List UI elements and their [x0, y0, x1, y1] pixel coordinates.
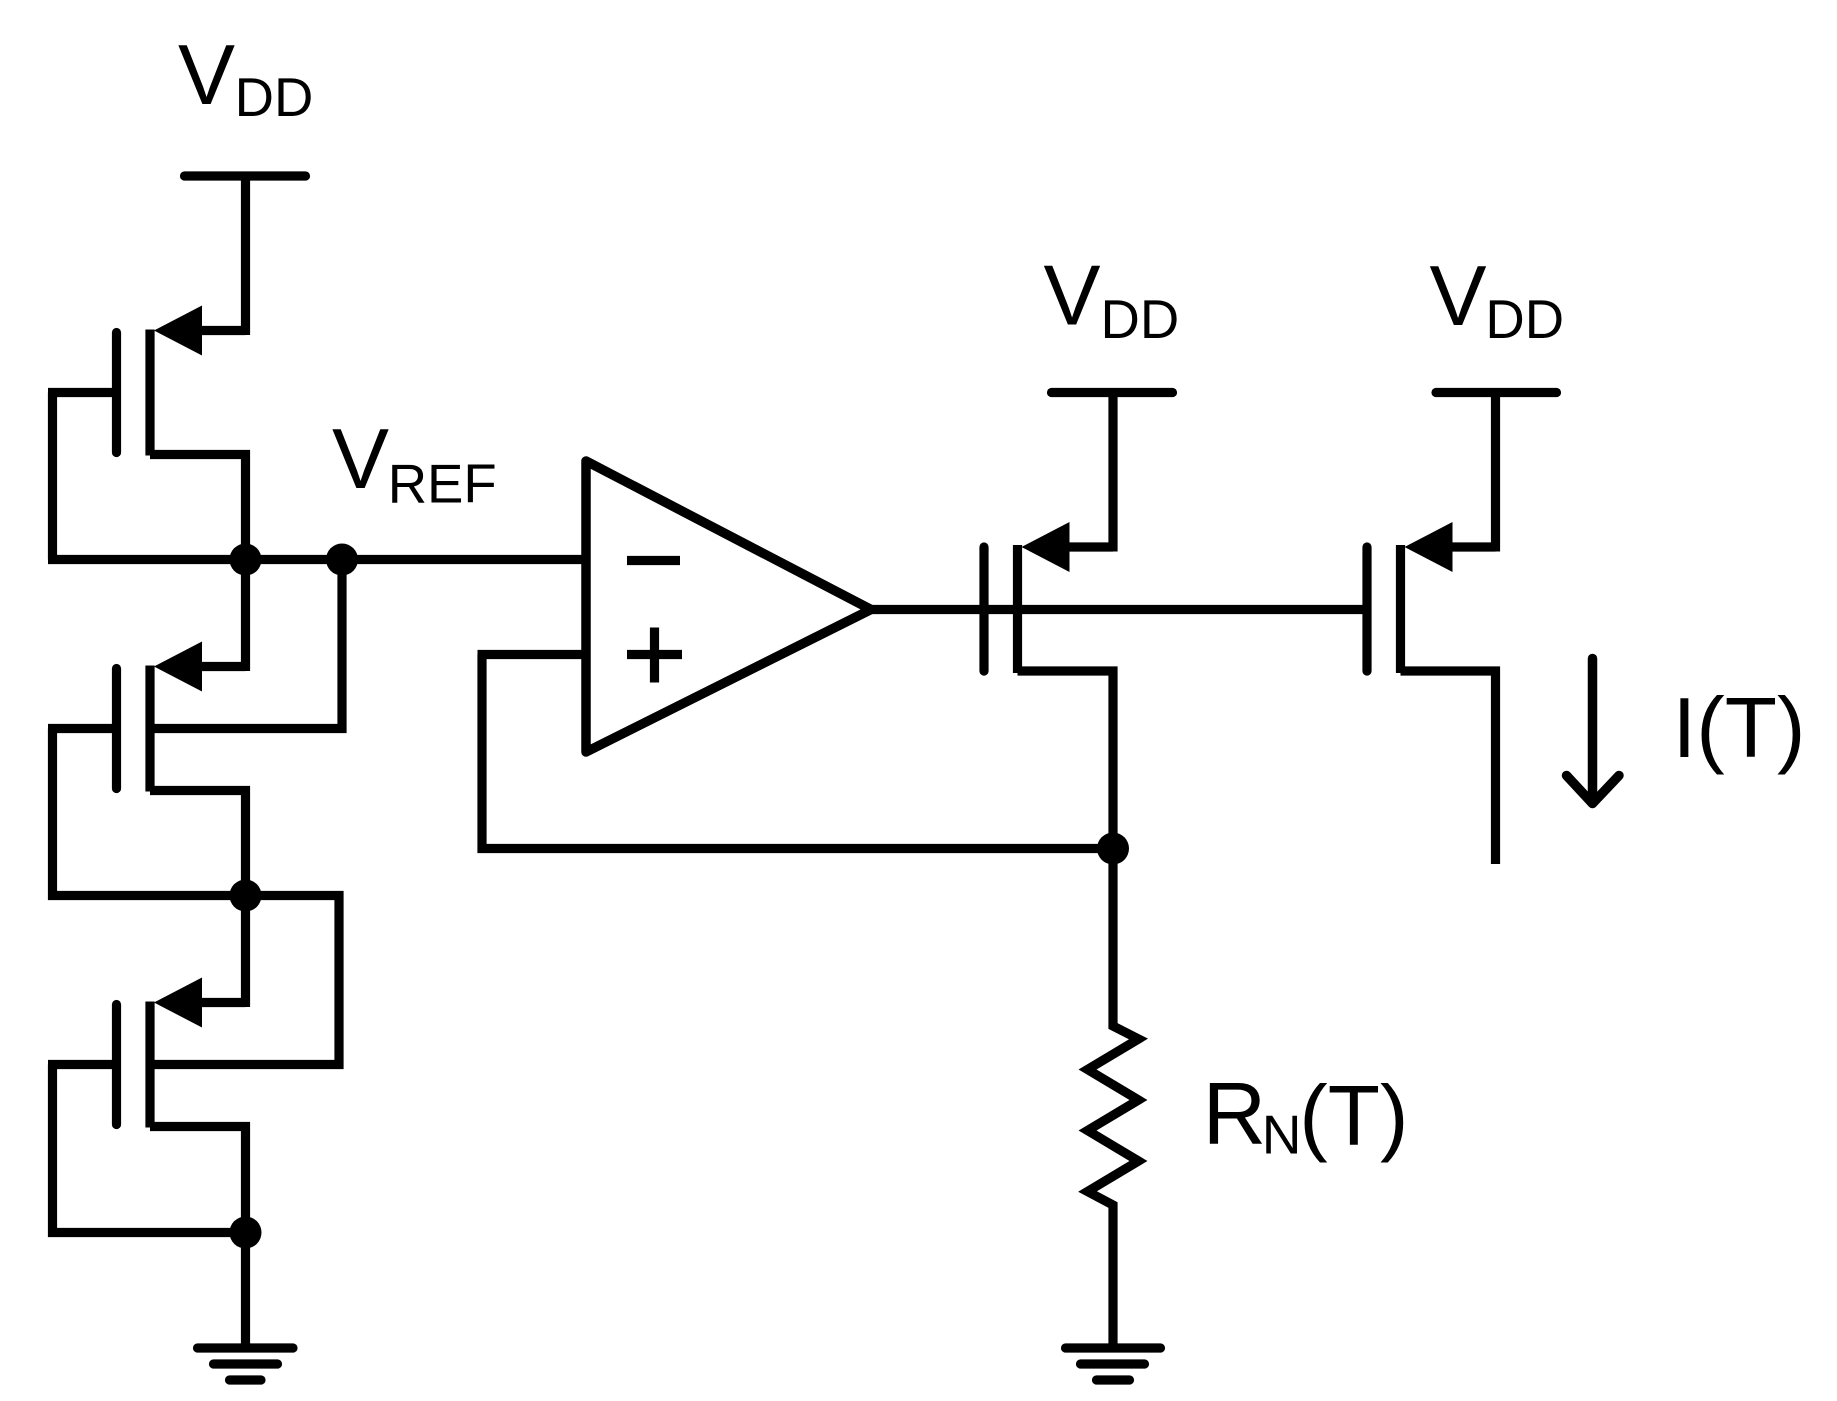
svg-text:I(T): I(T) [1673, 681, 1806, 776]
M3 gate wire [48, 1060, 117, 1069]
M4 gate bar [979, 547, 988, 671]
M2 source wire from VREF [241, 560, 250, 672]
M2 source lead [200, 662, 246, 671]
M2 gate wire [48, 724, 117, 733]
resistor RN(T) [1088, 849, 1139, 1347]
transistor M5 (PMOS current source) [1367, 522, 1496, 864]
wire VDD3 to M5 source [1491, 393, 1500, 552]
M5 source lead [1451, 542, 1496, 551]
node VREF wire [48, 555, 586, 564]
svg-text:REF: REF [388, 454, 497, 515]
power label VDD (left rail) [178, 28, 313, 128]
M2 channel bar [145, 666, 154, 792]
M5 drain lead [1401, 671, 1496, 864]
junction dot M2 drain / M3 source [230, 880, 262, 912]
M1 drain lead [150, 455, 246, 560]
ground symbol (left) [198, 1348, 294, 1380]
svg-text:V: V [1044, 249, 1101, 344]
transistor M4 (PMOS follower) [984, 522, 1113, 849]
M1 gate wire [48, 388, 117, 397]
M2 drain lead [150, 791, 246, 896]
wire VDD1 to M1 source [241, 176, 250, 335]
junction dot feedback / M4 drain / resistor [1097, 833, 1129, 865]
power supply rail VDD1 (bar) [185, 171, 306, 180]
junction dot at M1 drain / VREF [230, 544, 262, 576]
svg-text:DD: DD [235, 67, 314, 128]
wire M3 drain to ground [241, 1233, 250, 1347]
wire op-amp output to M4 and M5 gates [871, 605, 1367, 614]
resistor label RN(T) [1203, 1064, 1409, 1166]
transistor M1 (top PMOS, diode-connected) [48, 306, 246, 560]
M2 gate bar [112, 669, 121, 789]
M3 gate-to-drain loop wire [53, 1065, 246, 1233]
node label VREF [332, 412, 497, 515]
M1 source lead [200, 326, 246, 335]
U1 plus sign [627, 628, 682, 683]
current arrow I(T) [1567, 659, 1620, 804]
M3 source lead [200, 998, 246, 1007]
M1 gate bar [112, 333, 121, 453]
M5 source arrow (PMOS) [1405, 522, 1453, 572]
svg-text:V: V [1430, 249, 1487, 344]
U1 minus sign [627, 556, 680, 565]
svg-text:DD: DD [1101, 289, 1180, 350]
feedback wire (plus input to source node) [482, 655, 1113, 849]
M3 drain lead [150, 1127, 246, 1233]
M1 channel bar [145, 330, 154, 456]
svg-text:V: V [178, 28, 235, 123]
svg-text:R: R [1203, 1064, 1267, 1163]
power supply rail VDD2 (bar) [1052, 388, 1173, 397]
ground symbol (right) [1066, 1348, 1161, 1380]
current label I(T) [1673, 681, 1806, 776]
M4 source arrow (PMOS) [1022, 522, 1070, 572]
wire VDD2 to M4 source [1108, 393, 1117, 552]
op-amp U1 [478, 461, 872, 752]
junction dot M3 drain / ground wire [230, 1217, 262, 1249]
M2 body tap wire to VREF [150, 560, 342, 729]
power label VDD (middle rail) [1044, 249, 1180, 351]
svg-text:N: N [1262, 1104, 1302, 1166]
M3 source arrow (PMOS) [154, 978, 202, 1028]
svg-text:V: V [332, 412, 389, 507]
U1 triangle body [586, 461, 871, 752]
transistor M3 (bottom PMOS, diode-connected) [48, 896, 339, 1233]
M5 channel bar [1396, 545, 1405, 673]
svg-text:DD: DD [1485, 289, 1564, 350]
M2 source arrow (PMOS) [154, 642, 202, 692]
M4 drain lead [1018, 671, 1114, 849]
power label VDD (right rail) [1430, 249, 1565, 350]
svg-text:(T): (T) [1299, 1069, 1408, 1164]
transistor M2 (middle PMOS, diode-connected) [48, 560, 342, 896]
M4 source lead [1068, 542, 1114, 551]
M3 source wire [241, 896, 250, 1008]
M1 source arrow (PMOS) [154, 306, 202, 356]
M5 gate bar [1362, 547, 1371, 671]
M3 gate bar [112, 1005, 121, 1125]
M4 channel bar [1013, 545, 1022, 673]
U1 plus input wire [478, 650, 587, 659]
M3 channel bar [145, 1002, 154, 1128]
M2 gate-to-drain loop wire [53, 729, 246, 896]
junction dot VREF / M2 body tap [326, 544, 358, 576]
M1 gate-to-drain loop wire [48, 393, 57, 560]
power supply rail VDD3 (bar) [1436, 388, 1557, 397]
M3 body tap wire to source node [150, 896, 339, 1065]
